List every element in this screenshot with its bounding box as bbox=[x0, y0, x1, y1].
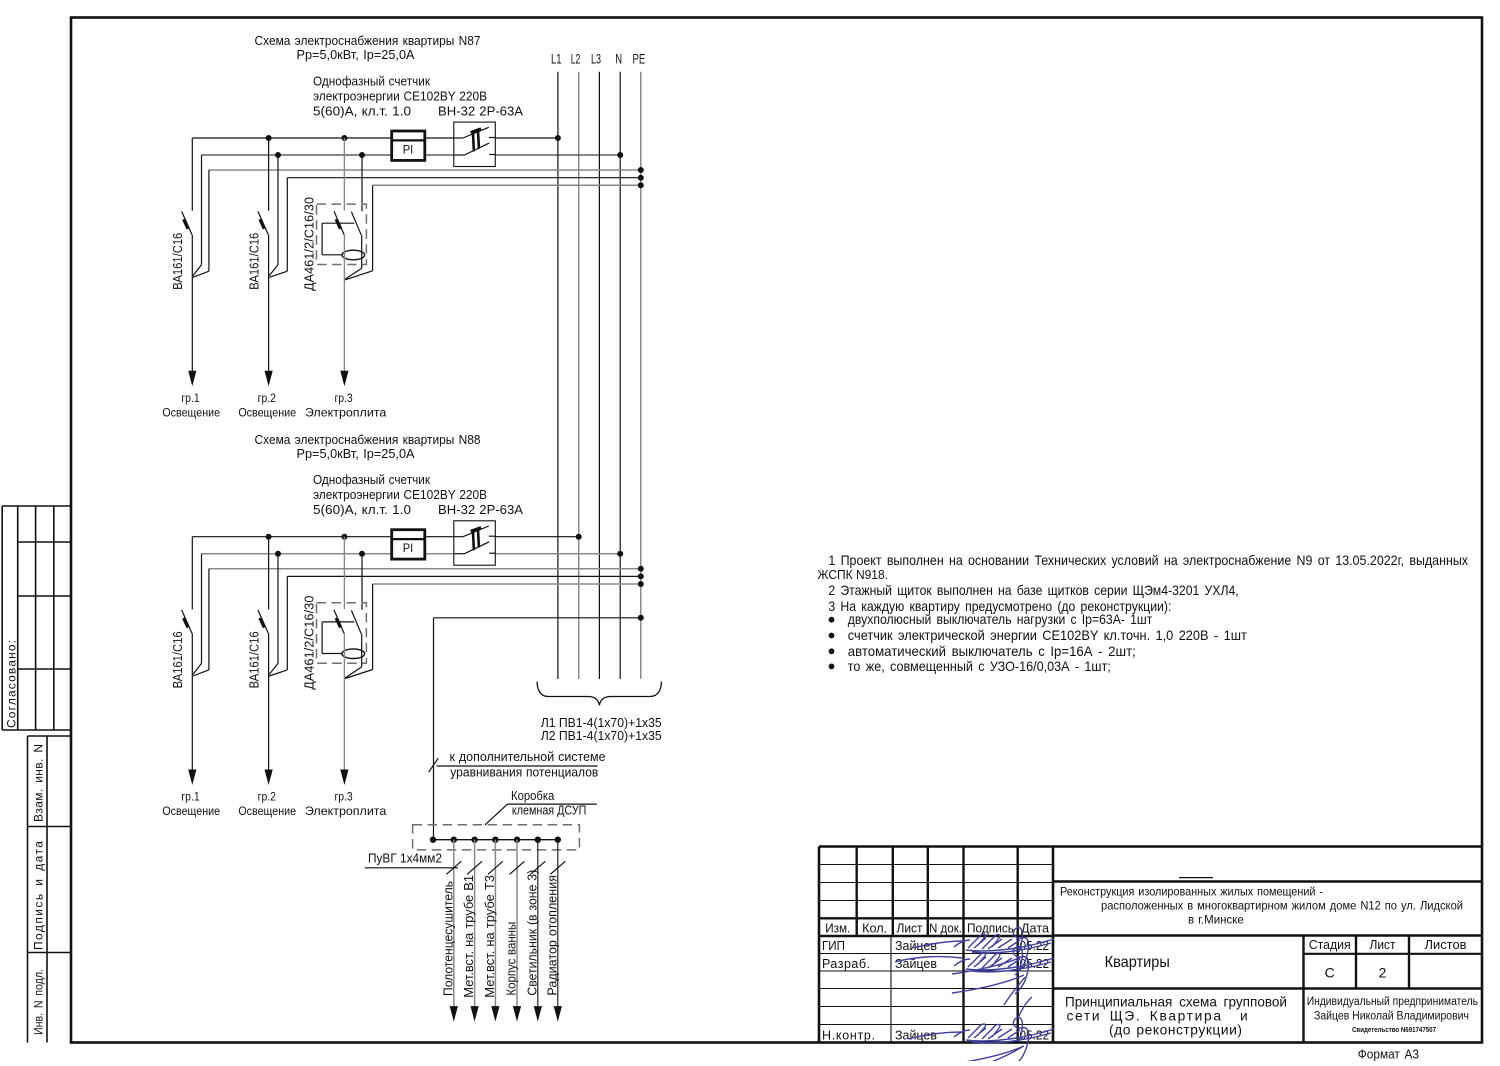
wire PE gr3 N87 bbox=[373, 184, 641, 186]
svg-text:2: 2 bbox=[1379, 965, 1387, 981]
circuit breaker ВА161/С16 gr2 N88 bbox=[258, 610, 268, 634]
wire neutral drop gr1 N87 bbox=[193, 155, 202, 276]
node phase tap gr3 N87 bbox=[341, 135, 347, 141]
left approval table bbox=[2, 506, 71, 730]
svg-text:и: и bbox=[1240, 1008, 1248, 1023]
node phase-bus junction N87 bbox=[555, 135, 561, 141]
node neutral tap gr3 N87 bbox=[359, 152, 365, 158]
svg-text:Реконструкция изолированных: Реконструкция изолированных жилых помеще… bbox=[1060, 885, 1323, 899]
wire group cable gr2 N87 bbox=[268, 235, 270, 371]
signature Разраб bbox=[895, 946, 1054, 1005]
title block left grid bbox=[819, 847, 1053, 1043]
svg-text:Согласовано:: Согласовано: bbox=[5, 640, 19, 728]
arrow outgoing gr2 N87 bbox=[265, 371, 273, 387]
node phase tap gr2 N88 bbox=[266, 534, 272, 540]
svg-text:Листов: Листов bbox=[1425, 937, 1467, 952]
node neutral tap gr2 N88 bbox=[275, 551, 281, 557]
svg-text:5(60)А, кл.т. 1.0: 5(60)А, кл.т. 1.0 bbox=[313, 104, 411, 119]
svg-text:С: С bbox=[1325, 965, 1335, 981]
svg-text:Кол.: Кол. bbox=[862, 922, 887, 936]
wire PE lower gr3 N87 bbox=[345, 185, 372, 279]
arrow DSUP branch 6 bbox=[554, 1006, 562, 1022]
node neutral-bus junction N88 bbox=[617, 551, 623, 557]
wire neutral drop gr2 N88 bbox=[269, 554, 278, 675]
wire group cable gr1 N88 bbox=[191, 633, 193, 769]
svg-text:Лист: Лист bbox=[897, 922, 923, 936]
node DSUP terminal 4 bbox=[492, 837, 498, 843]
wire PE gr3 N88 bbox=[373, 583, 641, 585]
wire DSUP branch 5 bbox=[537, 840, 539, 1008]
svg-text:Освещение: Освещение bbox=[162, 405, 220, 419]
wire DSUP branch 2 bbox=[474, 840, 476, 1008]
wire neutral drop gr2 N87 bbox=[269, 155, 278, 276]
wire neutral N87 bbox=[202, 154, 621, 156]
wire neutral N88 bbox=[202, 553, 621, 555]
svg-text:Свидетельство N691747507: Свидетельство N691747507 bbox=[1352, 1025, 1436, 1034]
meter PI N88 bbox=[392, 530, 425, 559]
svg-text:Рр=5,0кВт, Iр=25,0А: Рр=5,0кВт, Iр=25,0А bbox=[297, 47, 415, 62]
node DSUP-PE junction bbox=[638, 615, 644, 621]
svg-text:двухполюсный выключатель наг: двухполюсный выключатель нагрузки с Iр=6… bbox=[848, 612, 1153, 627]
svg-text:Светильник (в зоне 3): Светильник (в зоне 3) bbox=[525, 870, 539, 996]
wire group cable gr1 N87 bbox=[191, 235, 193, 371]
node DSUP terminal 7 bbox=[555, 837, 561, 843]
svg-text:Радиатор отопления: Радиатор отопления bbox=[545, 875, 559, 996]
svg-text:сети ЩЭ. Квартира: сети ЩЭ. Квартира bbox=[1067, 1008, 1222, 1023]
svg-text:ВН-32 2Р-63А: ВН-32 2Р-63А bbox=[438, 104, 523, 119]
signature rows bbox=[822, 939, 1049, 1043]
node phase tap gr3 N88 bbox=[341, 534, 347, 540]
svg-text:ВА161/С16: ВА161/С16 bbox=[171, 233, 185, 290]
svg-text:гр.1: гр.1 bbox=[181, 391, 200, 405]
label Коробка клемная ДСУП bbox=[485, 789, 597, 825]
wire PE gr1 N88 bbox=[209, 568, 641, 570]
svg-text:Формат А3: Формат А3 bbox=[1358, 1046, 1419, 1061]
svg-text:Л2 ПВ1-4(1х70)+1х35: Л2 ПВ1-4(1х70)+1х35 bbox=[541, 729, 662, 743]
svg-text:Мет.вст. на трубе В1: Мет.вст. на трубе В1 bbox=[462, 875, 476, 998]
svg-text:Подпись: Подпись bbox=[967, 922, 1014, 936]
svg-text:L3: L3 bbox=[591, 52, 601, 67]
svg-text:N док.: N док. bbox=[929, 922, 962, 936]
node PE gr1 junction N87 bbox=[638, 167, 644, 173]
svg-text:Подпись и дата: Подпись и дата bbox=[32, 841, 46, 950]
svg-text:счетчик электрической энерги: счетчик электрической энергии СЕ102BY кл… bbox=[848, 628, 1248, 643]
node neutral tap gr2 N87 bbox=[275, 152, 281, 158]
wire phase L N87 bbox=[192, 137, 558, 139]
svg-text:Схема электроснабжения кварт: Схема электроснабжения квартиры N88 bbox=[255, 432, 481, 447]
wire PE drop gr1 N88 bbox=[193, 569, 209, 676]
svg-text:автоматический выключатель с: автоматический выключатель с Iр=16А - 2ш… bbox=[848, 644, 1136, 659]
wire PE lower gr3 N88 bbox=[345, 584, 372, 679]
wire DSUP internal bus bbox=[433, 839, 558, 841]
bus L3 bbox=[598, 72, 600, 679]
svg-text:Инв. N подл.: Инв. N подл. bbox=[32, 969, 46, 1035]
signature ГИП bbox=[913, 927, 1054, 975]
svg-text:Корпус ванны: Корпус ванны bbox=[505, 922, 519, 996]
svg-text:Электроплита: Электроплита bbox=[305, 405, 387, 419]
svg-text:Однофазный счетчик: Однофазный счетчик bbox=[313, 74, 430, 89]
wire DSUP branch 3 bbox=[494, 840, 496, 1008]
node DSUP terminal 6 bbox=[535, 837, 541, 843]
node phase tap gr2 N87 bbox=[266, 135, 272, 141]
svg-text:Зайцев: Зайцев bbox=[895, 1029, 937, 1043]
svg-text:Освещение: Освещение bbox=[238, 405, 296, 419]
bus N bbox=[619, 72, 621, 679]
svg-text:Взам. инв. N: Взам. инв. N bbox=[32, 744, 46, 822]
svg-text:Разраб.: Разраб. bbox=[822, 957, 870, 971]
svg-text:ПуВГ 1х4мм2: ПуВГ 1х4мм2 bbox=[368, 851, 442, 866]
node PE gr1 junction N88 bbox=[638, 566, 644, 572]
svg-text:Л1 ПВ1-4(1х70)+1х35: Л1 ПВ1-4(1х70)+1х35 bbox=[541, 716, 662, 730]
svg-text:в г.Минске: в г.Минске bbox=[1188, 913, 1244, 927]
svg-text:Рр=5,0кВт, Iр=25,0А: Рр=5,0кВт, Iр=25,0А bbox=[297, 446, 415, 461]
svg-text:гр.2: гр.2 bbox=[258, 391, 277, 405]
title block right grid bbox=[1053, 878, 1482, 1043]
node PE gr3 junction N87 bbox=[638, 182, 644, 188]
svg-text:электроэнергии СЕ102BY 220В: электроэнергии СЕ102BY 220В bbox=[313, 89, 487, 104]
bus L2 bbox=[578, 72, 580, 679]
cable mark slash 3 bbox=[488, 861, 503, 874]
svg-text:PI: PI bbox=[403, 143, 414, 157]
wire DSUP branch 1 bbox=[453, 840, 455, 1008]
svg-text:Зайцев: Зайцев bbox=[895, 957, 937, 971]
svg-text:ГИП: ГИП bbox=[822, 939, 845, 953]
wire PE gr1 N87 bbox=[209, 169, 641, 171]
svg-text:(до реконструкции): (до реконструкции) bbox=[1109, 1023, 1242, 1038]
cable mark slash 4 bbox=[510, 861, 525, 874]
meter PI N87 bbox=[392, 131, 425, 160]
wire PE gr2 N88 bbox=[287, 575, 641, 577]
node phase-bus junction N88 bbox=[576, 534, 582, 540]
svg-text:Электроплита: Электроплита bbox=[305, 804, 387, 818]
circuit breaker ВА161/С16 gr2 N87 bbox=[258, 211, 268, 235]
svg-text:гр.3: гр.3 bbox=[334, 391, 353, 405]
notes text block bbox=[817, 553, 1468, 674]
wire phase lower gr3 N88 bbox=[343, 634, 345, 770]
svg-text:Зайцев Николай Владимирович: Зайцев Николай Владимирович bbox=[1314, 1011, 1469, 1023]
wire group cable gr2 N88 bbox=[268, 633, 270, 769]
svg-text:клемная ДСУП: клемная ДСУП bbox=[512, 804, 587, 818]
svg-text:2 Этажный щиток выполнен н: 2 Этажный щиток выполнен на базе щитков … bbox=[828, 583, 1238, 598]
svg-text:Освещение: Освещение bbox=[238, 804, 296, 818]
svg-text:уравнивания потенциалов: уравнивания потенциалов bbox=[450, 764, 598, 779]
svg-text:1 Проект выполнен на основ: 1 Проект выполнен на основании Техническ… bbox=[828, 553, 1468, 568]
svg-text:ВА161/С16: ВА161/С16 bbox=[171, 631, 185, 688]
project name text bbox=[1060, 885, 1463, 927]
svg-text:Освещение: Освещение bbox=[162, 804, 220, 818]
wire DSUP branch 4 bbox=[516, 840, 518, 1008]
svg-text:ВН-32 2Р-63А: ВН-32 2Р-63А bbox=[438, 502, 523, 517]
arrow DSUP branch 5 bbox=[534, 1006, 542, 1022]
wire phase drop gr1 N88 bbox=[191, 537, 193, 610]
circuit breaker ВА161/С16 gr1 N87 bbox=[182, 211, 192, 235]
arrow outgoing gr1 N87 bbox=[188, 371, 196, 387]
svg-text:гр.2: гр.2 bbox=[258, 790, 277, 804]
load switch ВН-32 N87 bbox=[454, 122, 496, 166]
cable mark slash 5 bbox=[530, 861, 545, 874]
svg-text:гр.1: гр.1 bbox=[181, 790, 200, 804]
label к дополнительной системе уравнивания потенциалов bbox=[429, 749, 606, 780]
cable mark slash 2 bbox=[467, 861, 482, 874]
wire DSUP branch 6 bbox=[557, 840, 559, 1008]
svg-text:N: N bbox=[615, 52, 622, 67]
wire PE drop gr2 N88 bbox=[269, 576, 287, 676]
node DSUP terminal 5 bbox=[514, 837, 520, 843]
wire phase drop gr2 N87 bbox=[268, 138, 270, 211]
cable mark slash 1 bbox=[446, 861, 461, 874]
arrow DSUP branch 3 bbox=[491, 1006, 499, 1022]
node DSUP terminal 2 bbox=[451, 837, 457, 843]
node PE gr3 junction N88 bbox=[638, 581, 644, 587]
wire neutral drop gr3 N87 bbox=[361, 155, 363, 211]
arrow DSUP branch 1 bbox=[450, 1006, 458, 1022]
svg-text:5(60)А, кл.т. 1.0: 5(60)А, кл.т. 1.0 bbox=[313, 502, 411, 517]
svg-text:PE: PE bbox=[633, 52, 646, 67]
svg-text:Стадия: Стадия bbox=[1309, 937, 1351, 952]
label ПуВГ 1х4мм2 bbox=[365, 851, 458, 868]
svg-text:ДА461/2/С16/30: ДА461/2/С16/30 bbox=[303, 596, 317, 690]
arrow outgoing gr3 N88 bbox=[340, 770, 348, 786]
contractor block bbox=[1307, 996, 1478, 1034]
svg-text:электроэнергии СЕ102BY 220В: электроэнергии СЕ102BY 220В bbox=[313, 487, 487, 502]
bus PE bbox=[640, 72, 642, 679]
stage/sheet header bbox=[1309, 937, 1467, 952]
svg-text:Н.контр.: Н.контр. bbox=[822, 1029, 875, 1043]
svg-text:L2: L2 bbox=[571, 52, 581, 67]
svg-text:Полотенцесушитель: Полотенцесушитель bbox=[441, 881, 455, 996]
svg-text:ВА161/С16: ВА161/С16 bbox=[247, 631, 261, 688]
bus L1 bbox=[557, 72, 559, 679]
svg-text:05.22: 05.22 bbox=[1020, 1029, 1050, 1043]
RCBO ДА461/2/С16/30 gr3 N87 bbox=[317, 204, 367, 264]
arrow DSUP branch 4 bbox=[513, 1006, 521, 1022]
svg-text:ДА461/2/С16/30: ДА461/2/С16/30 bbox=[303, 197, 317, 291]
node PE gr2 junction N87 bbox=[638, 175, 644, 181]
arrow outgoing gr1 N88 bbox=[188, 770, 196, 786]
svg-text:Мет.вст. на трубе Т3: Мет.вст. на трубе Т3 bbox=[483, 875, 497, 998]
svg-text:Зайцев: Зайцев bbox=[895, 939, 937, 953]
wire phase drop gr3 N88 bbox=[343, 537, 345, 610]
signature Н.контр bbox=[908, 997, 1054, 1066]
wire phase drop gr1 N87 bbox=[191, 138, 193, 211]
wire neutral lower gr3 N87 bbox=[345, 235, 362, 279]
wire phase drop gr2 N88 bbox=[268, 537, 270, 610]
wire PE drop gr2 N87 bbox=[269, 178, 287, 278]
svg-text:к дополнительной системе: к дополнительной системе bbox=[450, 749, 606, 764]
wire DSUP feed to PE bus bbox=[434, 618, 641, 840]
svg-text:Схема электроснабжения кварт: Схема электроснабжения квартиры N87 bbox=[255, 33, 481, 48]
node neutral-bus junction N87 bbox=[617, 152, 623, 158]
svg-text:расположенных в многоквартир: расположенных в многоквартирном жилом до… bbox=[1101, 898, 1463, 912]
left column table bbox=[28, 736, 72, 1043]
node DSUP terminal 1 bbox=[430, 837, 436, 843]
node PE gr2 junction N88 bbox=[638, 573, 644, 579]
circuit breaker ВА161/С16 gr1 N88 bbox=[182, 610, 192, 634]
node DSUP terminal 3 bbox=[471, 837, 477, 843]
wire phase lower gr3 N87 bbox=[343, 235, 345, 371]
svg-text:Однофазный счетчик: Однофазный счетчик bbox=[313, 472, 430, 487]
svg-text:ЖСПК N918.: ЖСПК N918. bbox=[817, 567, 888, 582]
cable mark slash 6 bbox=[550, 861, 565, 874]
RCBO ДА461/2/С16/30 gr3 N88 bbox=[317, 603, 367, 663]
svg-text:Изм.: Изм. bbox=[825, 922, 850, 936]
wire neutral drop gr3 N88 bbox=[361, 554, 363, 610]
title block outline bbox=[819, 847, 1482, 1043]
load switch ВН-32 N88 bbox=[454, 521, 496, 565]
svg-text:Индивидуальный предпринимател: Индивидуальный предприниматель bbox=[1307, 996, 1478, 1008]
arrow outgoing gr2 N88 bbox=[265, 770, 273, 786]
svg-text:Лист: Лист bbox=[1370, 937, 1396, 952]
svg-text:PI: PI bbox=[403, 541, 414, 555]
arrow outgoing gr3 N87 bbox=[340, 371, 348, 387]
wire phase L N88 bbox=[192, 536, 578, 538]
svg-text:гр.3: гр.3 bbox=[334, 790, 353, 804]
title block header labels bbox=[825, 922, 1049, 936]
wire PE gr2 N87 bbox=[287, 177, 641, 179]
terminal box ДСУП dashed bbox=[413, 825, 580, 850]
arrow DSUP branch 2 bbox=[471, 1006, 479, 1022]
svg-text:то же, совмещенный с УЗО-1: то же, совмещенный с УЗО-16/0,03А - 1шт; bbox=[848, 659, 1111, 674]
brace under buses bbox=[537, 682, 661, 706]
node neutral tap gr3 N88 bbox=[359, 551, 365, 557]
svg-text:Квартиры: Квартиры bbox=[1105, 954, 1170, 971]
svg-text:Дата: Дата bbox=[1021, 922, 1049, 936]
wire PE drop gr1 N87 bbox=[193, 170, 209, 277]
wire neutral lower gr3 N88 bbox=[345, 634, 362, 678]
document title text bbox=[1065, 995, 1287, 1038]
wire neutral drop gr1 N88 bbox=[193, 554, 202, 675]
svg-text:L1: L1 bbox=[551, 52, 562, 67]
svg-text:Коробка: Коробка bbox=[511, 789, 554, 803]
wire phase drop gr3 N87 bbox=[343, 138, 345, 211]
svg-text:ВА161/С16: ВА161/С16 bbox=[247, 233, 261, 290]
